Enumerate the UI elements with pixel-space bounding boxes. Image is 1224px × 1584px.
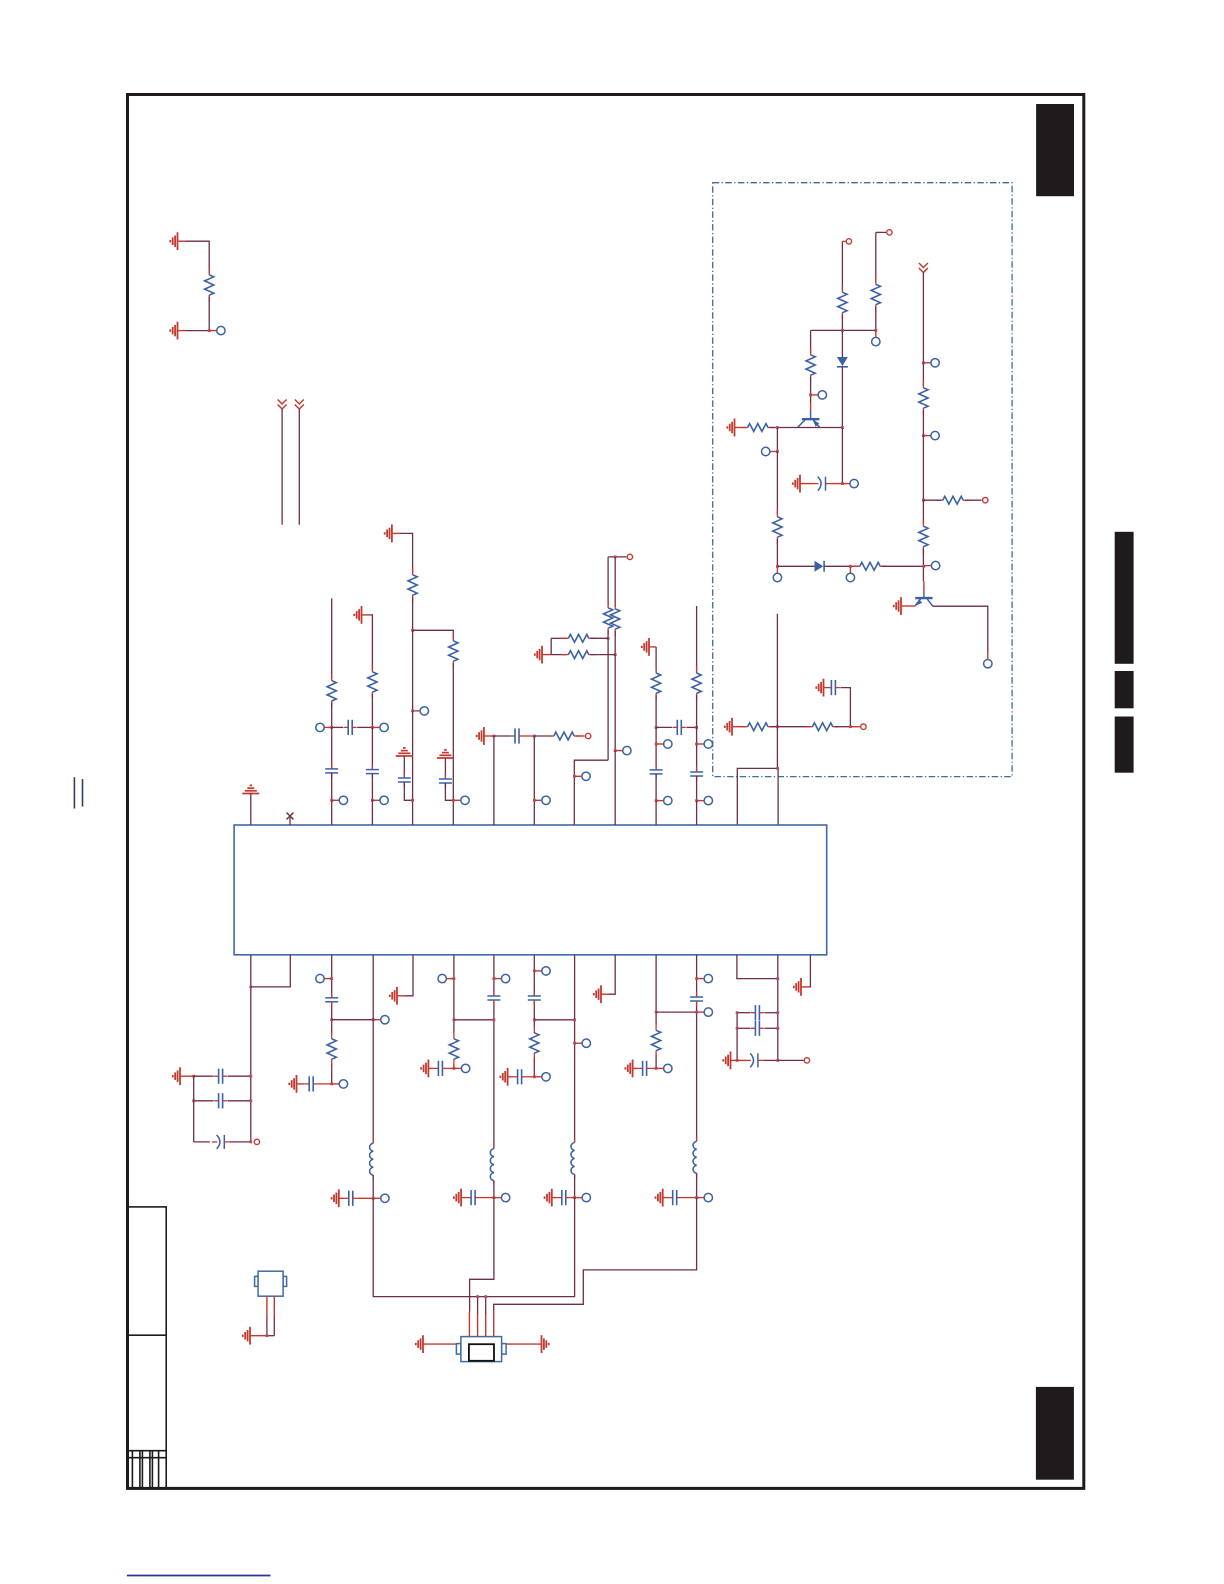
wire R11 to node F [770,726,811,728]
resistor R11 [741,723,775,731]
connector circle Q2 base [924,561,940,569]
wire col5 to IC [493,736,495,825]
resistor R16 [449,634,458,668]
dash-dot enclosure box [713,183,1012,777]
wire C8 left [494,735,511,737]
resistor R9 [936,496,970,504]
wire pin11 down b [655,1055,657,1068]
wire pin7 down b [493,1000,495,1149]
resistor R25 [449,1032,458,1066]
wire G11 stem [542,654,551,656]
capacitor C26 [668,1190,681,1205]
resistor R2 [838,286,847,320]
junction col7 circle [573,775,576,778]
wire L2 to row [493,1181,495,1198]
junction col3 circle [411,710,414,713]
resistor R6 [773,510,782,544]
resistor R1 [205,268,214,302]
wire R13 to row1 [331,703,333,728]
terminal circle node A [209,326,225,334]
connector circle below node B [872,330,880,345]
wire C28 right [764,1027,777,1029]
wire C17 right [357,1197,373,1199]
wire G4 stem [800,483,813,485]
junction C29 right [776,1059,779,1062]
wire R1 to node [186,297,209,331]
wire C10 to row2 [655,774,657,801]
wire Q1 base lead [810,403,812,411]
junction C1 node [841,482,844,485]
ground G5 [894,597,901,615]
resistor R12 [806,723,840,731]
wire pin3 to pin4 [332,1019,374,1021]
capacitor C12 [214,1069,227,1084]
terminal T4 [850,724,866,729]
junction C27 right [776,1011,779,1014]
wire C4 to row2 [331,773,333,800]
wire L3 to row [574,1175,576,1198]
connector circle pin3 bottom [332,1080,348,1088]
wire R7 to Q2 node [882,565,924,567]
wire col2 down [371,727,373,769]
wire T6 down left [607,557,609,606]
connector circle col1 row1 [316,723,332,731]
wire pin12 down b [696,1001,698,1141]
junction C28 left [736,1027,739,1030]
wire G20 stem [552,1197,558,1199]
connector J1 body [255,1271,287,1296]
junction node B left [841,329,844,332]
connector circle col8 [615,746,631,754]
inductor L3 [571,1139,575,1179]
wire node E to R10 [922,500,924,524]
wire gnd to R1 [186,241,209,273]
wire R8 to node D [922,410,924,436]
ground G8 [354,606,361,624]
ground G1 [170,232,177,250]
revision table (bottom left) [128,1207,167,1488]
wire Y1 pin3 [485,1297,487,1337]
capacitor C22 [513,1069,526,1084]
diode D1 [837,357,848,367]
capacitor C15 [325,993,338,1007]
connector circle pin8 [534,967,550,975]
resistor R14 [368,665,377,699]
junction base rail [776,426,779,429]
ground G24 [723,1052,730,1070]
ground G14 [289,1075,296,1093]
wire pin8 to pin9 [534,1019,574,1021]
capacitor C8 [511,728,524,743]
junction J1 gnd [266,1334,269,1337]
connector circle L4 row [697,1193,713,1201]
capacitor C24 [638,1061,651,1076]
junction capblock tl [192,1075,195,1078]
wire P2 to C6 [403,756,405,778]
connector circle pin9 [575,1039,591,1047]
wire node H down [412,630,414,711]
wire T2 to R3 [875,232,877,282]
wire C20 right [480,1197,494,1199]
resistor R27 [652,1024,661,1058]
wire pin11 down [655,955,657,1025]
ground G10 [477,727,484,745]
wire Y1 left ground lead [423,1343,456,1345]
wire node C to R8 [922,363,924,386]
wire node F to IC pins [737,768,778,825]
wire R19 to row [614,631,616,655]
wire C28 left [737,1027,750,1029]
junction col10 row1 [695,726,698,729]
capacitor C16 [305,1076,318,1091]
signature rule (bottom left) [127,1575,271,1577]
wire pin8 down c [533,1058,535,1077]
wire G26 stem [250,1335,267,1337]
no-connect X mark [289,817,291,825]
wire capblock left rail [193,1076,195,1142]
junction col6 row2 [533,799,536,802]
inductor L4 [693,1137,697,1177]
wire col10 stub [696,606,698,671]
wire pin15 gnd [809,955,810,987]
wire R18 to row [607,630,609,638]
capacitor C23 [557,1190,570,1205]
wire pin5 gnd [405,955,413,996]
wire pin11 to pin12 [656,1011,697,1013]
wire col10 down [696,727,698,772]
ground G7 [725,718,732,736]
supply chevron 3 [919,263,928,273]
capacitor C7 [439,774,452,788]
resistor R10 [919,520,928,554]
capacitor C5 [366,765,379,779]
ground G11 [535,646,542,664]
wire R3 to node B [875,307,877,331]
capacitor C27 [751,1005,764,1020]
ground G6 [816,679,823,697]
black index tab 1 (top right) [1036,104,1074,196]
wire G8 stem [362,614,371,616]
ground G20 [545,1189,552,1207]
wire L1 to row [372,1175,374,1198]
wire R2 to node B [841,315,843,331]
wire C12 right [228,1075,251,1077]
wire pin13 corner [737,955,778,979]
power flag P1 [242,785,259,793]
junction pin6 bottom [453,1067,456,1070]
junction C27 left [736,1011,739,1014]
junction R18 row [607,637,610,640]
junction col3 row2 [411,799,414,802]
wire col10 to IC [696,801,698,825]
junction pin8 circle [533,970,536,973]
wire col1 to IC [331,800,333,825]
wire R6 to D2 node [776,539,778,566]
junction L2 row [493,1196,496,1199]
capacitor C20 [467,1190,480,1205]
wire col1 stub [331,598,333,679]
wire C8 right [524,735,535,737]
connector circle pin8 bottom [534,1073,550,1081]
transistor Q1 [798,411,820,428]
ground G15 [332,1189,339,1207]
wire node H to col4 [413,630,454,639]
connector circle L3 row [575,1193,591,1201]
wire pin6 down b [453,1064,455,1068]
wire node to cap C1 [841,428,843,484]
wire C13 left [194,1100,214,1102]
antenna chevron 2 [295,400,304,410]
ground G25 [794,978,801,996]
capacitor C19 [487,991,500,1005]
wire C24 right [651,1067,656,1069]
junction pin9 tap [573,1018,576,1021]
connector circle C1 [842,479,858,487]
wire col9 to IC [655,801,657,825]
wire J1 pin A [266,1296,268,1336]
connector circle D2 cathode [846,566,854,581]
wire pin9 down [574,955,576,1143]
junction Q1 base node [809,394,812,397]
wire G17 stem [428,1067,434,1069]
capacitor C21 [528,991,541,1005]
junction pin11 tap [655,1011,658,1014]
wire col6 to R17 [534,735,552,737]
resistor R7 [853,562,887,570]
junction pin7 tap [493,1018,496,1021]
resistor R3 [871,278,880,312]
ground G26 [243,1327,250,1345]
connector circle col6 row2 [534,796,550,804]
wire C27 left [737,1012,750,1014]
junction pin3 bottom [330,1083,333,1086]
junction pin6 tap [453,1018,456,1021]
wire R14 to row1 [371,694,373,727]
power flag P2 [396,748,413,756]
junction pin3 tap [330,1018,333,1021]
junction pin8 tap [533,1018,536,1021]
wire G12 stem [649,646,656,648]
wire C9 right [686,726,696,728]
junction col5 top [493,735,496,738]
wire G13 stem [180,1075,194,1077]
inductor L2 [490,1145,494,1185]
junction Q2 base node [923,565,926,568]
junction node D [922,434,925,437]
terminal T8 [778,1058,810,1063]
junction C13 left [192,1099,195,1102]
ground G19 [500,1068,507,1086]
wire pin9 to xtal rail [478,1198,575,1297]
junction col2 row2 [371,799,374,802]
wire G5 stem [901,605,915,607]
capacitor C9 [673,720,686,735]
antenna chevron 1 [278,400,287,410]
junction pin7 circle [493,977,496,980]
wire G25 stem [801,986,810,988]
wire Q1 emitter rail [770,427,843,429]
wire chevron 2 [298,409,300,525]
wire pin8 down [533,955,535,996]
wire node B to R4 [810,330,812,353]
junction col9 circle row [655,743,658,746]
wire G23 stem [663,1197,669,1199]
wire G15 stem [339,1197,345,1199]
junction col4 row2 [452,799,455,802]
junction pin drop [776,767,779,770]
wire col1 down [331,727,333,769]
junction Y1 pin2 tap [476,1295,479,1298]
wire C9 left [656,726,672,728]
wire R4 to Q1 base [810,377,812,403]
junction pin8 bottom [533,1075,536,1078]
resistor R19 [611,602,620,636]
black index tab 2 (right, tall) [1115,532,1134,664]
junction node G [849,725,852,728]
connector circle col10 row2 [697,796,713,804]
ground G23 [656,1189,663,1207]
diode D2 [815,561,825,572]
ground G12 [642,638,649,656]
wire C16 right [318,1083,332,1085]
connector circle Q2 out [984,653,992,668]
wire G18 stem [461,1197,467,1199]
wire G7 stem [732,726,746,728]
junction Y1 pin3 tap [484,1295,487,1298]
wire C13 right [228,1100,251,1102]
wire row1 left end [551,637,566,639]
connector circle col2 row1 [372,723,388,731]
resistor R26 [530,1026,539,1060]
junction L3 row [573,1196,576,1199]
wire G22 stem [633,1067,639,1069]
junction pin12 circle [695,977,698,980]
resistor R24 [327,1032,336,1066]
x mark [287,813,294,820]
wire C14 left [194,1141,210,1143]
wire col7 corner [574,760,608,825]
wire D2 to R7 [824,565,858,567]
wire node B rail [811,329,876,331]
wire Q2 emitter out [932,606,988,652]
capacitor C18 [434,1061,447,1076]
terminal T6 [608,554,633,559]
connector circle col4 row2 [453,796,469,804]
junction T6 tap [614,556,617,559]
wire R10 to Q2 [922,549,924,582]
junction pin4 tap [372,1018,375,1021]
wire G9 stem [392,532,401,534]
wire pin7 to xtal pin1 [470,1198,494,1312]
connector circle pin6 [438,974,454,982]
wire pin8 down b [533,1000,535,1027]
resistor R21 [562,651,596,659]
junction col1 row1 [330,726,333,729]
capacitor C6 [398,773,411,787]
wire to R6 [776,452,778,516]
wire col6 to IC [533,736,535,825]
resistor R22 [652,666,661,700]
junction D2 anode [776,565,779,568]
ground G3 [727,419,734,437]
ground G22 [625,1060,632,1078]
wire C29 right [763,1059,777,1061]
connector circle L1 row [373,1194,389,1202]
wire C18 right [447,1067,454,1069]
junction node F [776,725,779,728]
wire Q2 base lead [923,581,925,591]
junction pin3 circle [330,977,333,980]
ground G17 [421,1060,428,1078]
capacitor C25 [690,992,703,1006]
wire C14 right [230,1141,251,1143]
capacitor C13 [214,1093,227,1108]
wire pin6 to pin7 [454,1019,494,1021]
junction pin12 tap [695,1011,698,1014]
connector circle col9 row2 [656,796,672,804]
wire anode to D2 [777,565,814,567]
wire P1 to IC [250,794,252,826]
wire pin3 down [331,955,333,998]
IC U1 main block [234,825,827,955]
wire C26 right [681,1197,696,1199]
resistor R8 [919,381,928,415]
wire R23 to row1 [696,695,698,727]
junction node E [922,499,925,502]
black index tab 3 (right, small) [1115,671,1134,708]
wire node B to D1 [841,330,843,357]
wire R19 down [614,655,616,751]
wire pin12 down [696,955,698,997]
wire C12 left [194,1075,214,1077]
wire C6 to col3 [404,782,412,800]
wire G6 stem [824,687,828,689]
wire G19 stem [508,1076,513,1078]
wire node F vertical [776,614,778,769]
wire G3 stem [735,427,746,429]
connector circle col1 row2 [332,796,348,804]
junction C29 left [736,1059,739,1062]
junction col9 row1 [655,726,658,729]
junction D2 cathode [849,565,852,568]
connector circle Q1 base [811,391,827,399]
wire C1 to node [831,483,842,485]
resistor R23 [692,666,701,700]
wire L4 to row [696,1173,698,1197]
wire Y1 pin2 [477,1297,479,1337]
junction C12 right [249,1075,252,1078]
resistor R13 [327,674,336,708]
wire D1 to emitter rail [841,367,843,428]
wire R16 to IC [452,663,454,825]
wire R22 to row1 [655,695,657,727]
resistor R5 [741,424,775,432]
wire pin3 down c [331,1064,333,1084]
junction pin1 merge [249,986,252,989]
wire C5 to row2 [371,774,373,801]
wire C2 to node [840,688,850,727]
wire J1 pin B [273,1296,275,1336]
wire chevron to node C [922,273,924,363]
polarized capacitor C29 [745,1053,763,1067]
capacitor C17 [344,1191,357,1206]
wire pin3 down b [331,1002,333,1033]
terminal T3 [983,498,988,503]
transistor Q2 [915,591,932,606]
junction node B right [874,329,877,332]
connector circle col9 mid [656,740,672,748]
junction node H [411,629,414,632]
